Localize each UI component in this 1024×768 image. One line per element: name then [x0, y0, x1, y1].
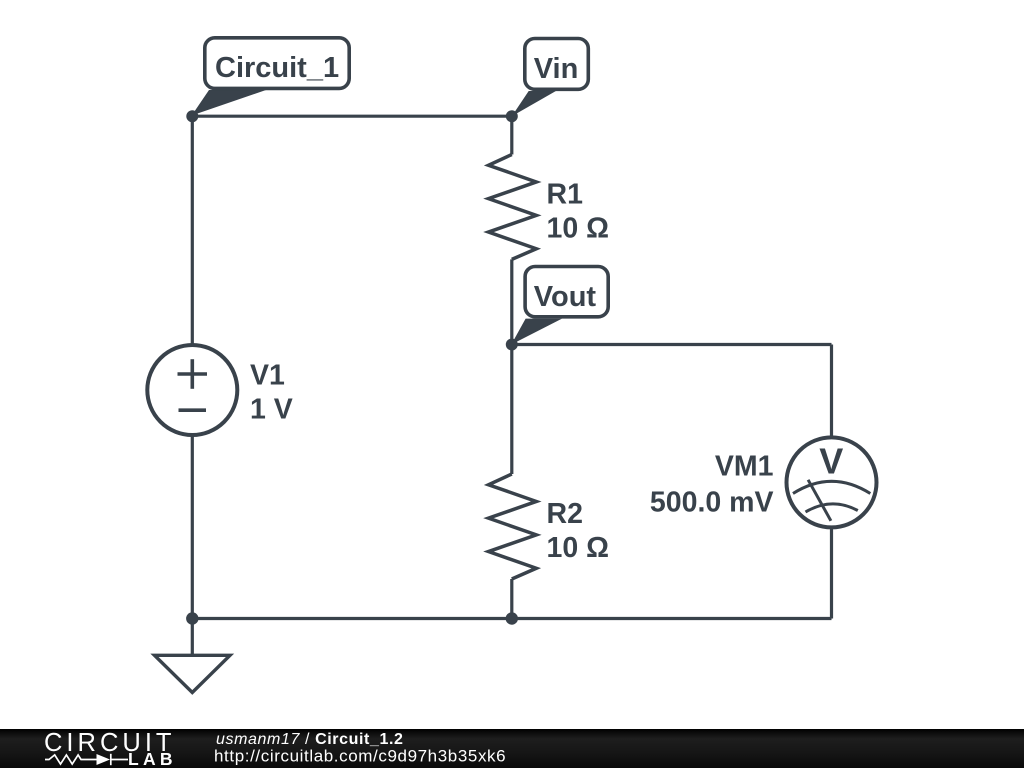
wire: VM1 bottom down to bottom rail [830, 527, 833, 618]
label VM1 value [650, 451, 774, 519]
node dot: ground junction [186, 612, 198, 624]
resistor R1 [489, 155, 537, 260]
svg-text:R2: R2 [547, 498, 583, 530]
node flag Vout [511, 267, 608, 345]
svg-text:usmanm17 / Circuit_1.2: usmanm17 / Circuit_1.2 [216, 731, 404, 748]
wire: top horizontal from Circuit_1 node to Vin node [192, 115, 512, 118]
node dot: R2 bottom junction [506, 612, 518, 624]
wire: left vertical from top node down to V1 positive terminal [191, 116, 194, 346]
svg-text:LAB: LAB [128, 749, 174, 768]
wire: Vin node down to R1 top [510, 116, 513, 154]
svg-text:1 V: 1 V [250, 394, 293, 426]
svg-text:VM1: VM1 [715, 451, 774, 483]
svg-text:10 Ω: 10 Ω [547, 532, 609, 564]
svg-text:Circuit_1: Circuit_1 [215, 52, 339, 84]
svg-text:10 Ω: 10 Ω [547, 213, 609, 245]
node dot: top-left junction [186, 110, 198, 122]
svg-text:R1: R1 [547, 179, 584, 211]
wire: ground stub [191, 619, 194, 655]
node flag Vin [512, 39, 589, 117]
wire: left vertical from V1 negative terminal down to bottom rail [191, 434, 194, 619]
resistor R2 [489, 474, 537, 579]
svg-text:Vout: Vout [534, 281, 597, 313]
label R1 value [547, 179, 609, 245]
voltage source V1 [147, 345, 237, 435]
node dot: Vout junction [506, 339, 518, 351]
label R2 value [547, 498, 609, 564]
svg-text:Vin: Vin [534, 53, 579, 85]
svg-text:500.0 mV: 500.0 mV [650, 487, 774, 519]
svg-text:V: V [819, 440, 843, 481]
svg-text:V1: V1 [250, 360, 285, 392]
label V1 value [250, 360, 293, 426]
wire: bottom rail from ground node to voltmeter branch [192, 617, 831, 620]
wire: Vout node horizontal to voltmeter branch [512, 343, 832, 346]
wire: voltmeter branch vertical down to VM1 top [830, 345, 833, 438]
node flag Circuit_1 [192, 38, 350, 116]
node dot: Vin junction [506, 110, 518, 122]
wire: R2 bottom down to bottom rail [510, 579, 513, 619]
footer bar [0, 729, 1024, 768]
CircuitLab logo schematic squiggle [45, 754, 128, 765]
voltmeter VM1 [787, 437, 877, 527]
CircuitLab logo wordmark [44, 729, 174, 768]
wire: R1 bottom down to Vout node [510, 259, 513, 344]
wire: Vout node down to R2 top [510, 345, 513, 475]
ground [155, 655, 231, 692]
svg-text:http://circuitlab.com/c9d97h3b: http://circuitlab.com/c9d97h3b35xk6 [214, 747, 506, 766]
